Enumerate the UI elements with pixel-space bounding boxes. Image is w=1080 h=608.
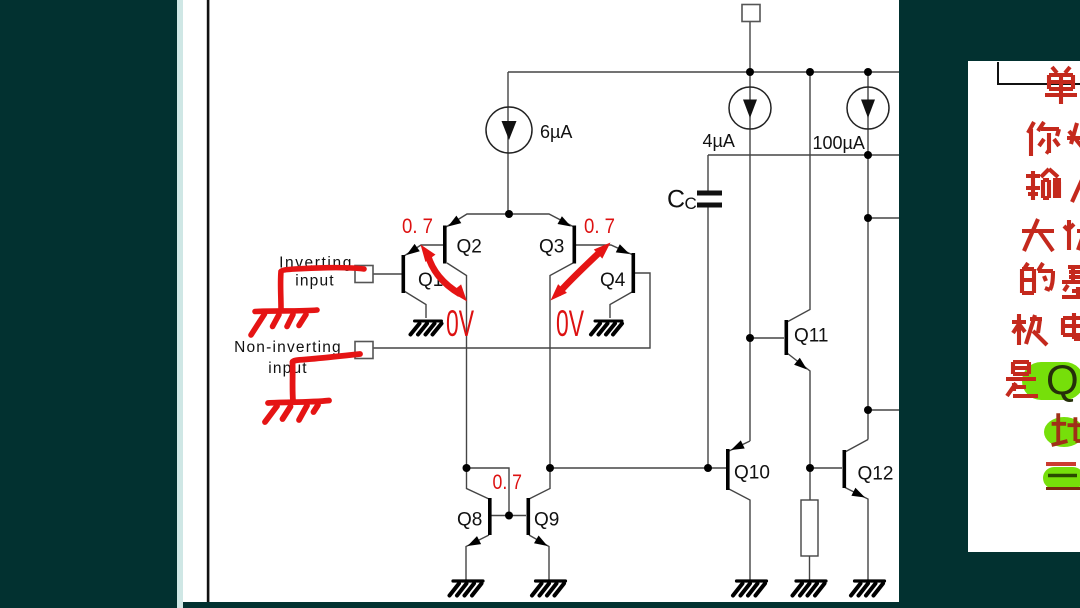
wire: Q11 base [750,337,784,339]
wire: Q1 collector to ground [404,291,426,318]
left frame rule [207,0,210,602]
junction Q11 emitter / Q12 base / resistor [806,464,814,472]
svg-text:C: C [667,186,685,214]
svg-text:Q2: Q2 [457,237,482,258]
hanzi di line8 (dark over green) [1052,412,1080,445]
wire: Cc branch vertical lower [707,207,709,469]
wire: Q12 emitter to ground [845,488,868,581]
wire: top terminal to rail [749,21,751,72]
transistor Q4 [600,244,635,293]
red scribble: inverting input ground [251,268,364,335]
ground (resistor) [793,581,827,596]
transistor Q9 [527,498,560,546]
hanzi da line4 [1022,219,1054,251]
wire: output stub y410 [868,409,899,411]
hanzi san bottom stroke dark [1046,487,1080,490]
wire: V+ rail [508,71,899,73]
svg-text:4µA: 4µA [703,131,735,151]
ground (Q9 emitter) [532,581,566,596]
wire: Q3 emitter arm [509,214,574,227]
ground (Q8 emitter) [450,581,484,596]
hanzi san middle stroke dark [1048,474,1077,478]
hanzi dian line6 [1063,313,1080,339]
wire: Q10 emitter diagonal [728,441,750,452]
ground (Q1 collector) [411,321,442,335]
pale edge between teal and slide [177,0,183,608]
hanzi zhuang line4 [1064,219,1080,250]
hanzi de line5 [1022,263,1053,293]
hanzi ru line3 [1072,171,1080,202]
green ellipse highlight line8 [1044,417,1080,447]
junction Q8 Q9 base tie [505,512,513,520]
junction Cc branch / Q10 base [704,464,712,472]
red scribble: non-inverting input ground [265,354,360,422]
wire: Q4 collector to ground [610,292,632,318]
note panel corner border [998,62,1080,84]
svg-text:0V: 0V [556,303,584,344]
junction V+ rail / 4uA branch [746,68,754,76]
wire: Cc node horizontal [708,154,899,156]
transistor Q1 [402,244,444,293]
wire: 4uA branch x750 [749,72,751,441]
junction output stub / Q12 collector [864,406,872,414]
wire: Q1 base from inverting input [373,273,402,275]
junction Q9 collector node [546,464,554,472]
svg-text:input: input [295,273,335,290]
svg-text:100µA: 100µA [813,133,865,153]
hanzi shu line3 [1026,169,1061,200]
transistor Q12 [843,450,894,498]
transistor Q3 [539,216,576,263]
svg-text:0. 7: 0. 7 [584,215,615,238]
wire: Q11 emitter down to resistor [787,353,810,500]
svg-text:Q4: Q4 [600,270,626,291]
wire: 100uA branch x868 [867,72,869,440]
svg-text:Q10: Q10 [734,463,770,484]
ground (Q10) [733,581,767,596]
junction Cc node / 100uA branch [864,151,872,159]
junction Q8 collector node [463,464,471,472]
terminal square non-inverting input [355,342,373,359]
junction V+ rail / 100uA branch [864,68,872,76]
wire: 6uA branch vertical [507,72,509,214]
svg-text:0. 7: 0. 7 [402,215,433,238]
junction stub y218 / 100uA branch [864,214,872,222]
svg-text:0. 7: 0. 7 [493,471,523,494]
current source 4uA [703,87,772,151]
wire: Q10 collector to ground [728,489,750,581]
wire: Q2 emitter arm [446,214,508,227]
svg-text:Q8: Q8 [457,510,482,531]
svg-text:Q: Q [1046,356,1079,403]
junction 6uA source / Q2 Q3 emitters [505,210,513,218]
wire: Q3 collector down to Q9 [529,263,573,499]
green highlight behind Q [1022,362,1080,400]
hanzi shi line7 [1006,362,1038,396]
wire: Q11 collector up to rail [787,72,810,322]
hanzi san line9 top stroke [1046,462,1076,466]
resistor R1 [801,500,818,556]
wire: base tie to Q8 collector node [467,468,510,516]
junction Q11 base / 4uA branch [746,334,754,342]
note panel (right) [968,61,1080,552]
red arrow Q1-Q2 (left) [421,245,468,302]
hanzi ni line2 [1028,122,1059,156]
svg-text:Q11: Q11 [794,326,829,347]
ground (Q4 collector) [591,321,622,335]
svg-text:Non-inverting: Non-inverting [234,339,342,356]
wire: resistor to ground [809,556,811,580]
wire: Cc branch vertical upper [707,155,709,191]
svg-text:C: C [685,194,697,213]
svg-text:Q12: Q12 [858,464,894,485]
capacitor Cc [667,186,722,214]
junction V+ rail / Q11 collector [806,68,814,76]
wire: Q8 emitter to ground [466,535,489,580]
wire: Q2 base to Q1 emitter [404,245,443,256]
transistor Q11 [785,320,829,370]
transistor Q10 [726,440,770,490]
wire: Q4 emitter to Q3 base [576,245,632,255]
transistor Q2 [443,216,482,264]
svg-text:6µA: 6µA [540,122,572,142]
current source 100uA [813,87,890,153]
wire: Q12 collector diagonal [845,440,868,453]
ground (Q12 emitter) [851,581,885,596]
hanzi hao line2 [1067,123,1080,152]
red arrow Q3-Q4 (right) [551,243,611,301]
hanzi dan line1 [1045,67,1077,104]
current source 6uA [486,107,572,153]
wire: stub right y218 [868,217,899,219]
svg-text:0V: 0V [446,303,474,344]
hanzi ji line5 [1062,267,1080,297]
svg-text:Q9: Q9 [534,510,559,531]
wire: Q9 emitter to ground [529,535,549,580]
green highlight bar line9 [1043,467,1080,489]
wire: Q9 collector node to Q10 base [550,467,726,469]
wire: Q2 collector down to Q8 [447,263,489,499]
wire: Q12 base [810,467,842,469]
schematic white area [183,0,899,602]
wire: Q8/Q9 base tie [491,515,526,517]
hanzi ji2 line6 [1012,314,1047,345]
transistor Q8 [457,498,492,546]
terminal square top [742,5,760,22]
wire: Q4 base loop to non-inverting input [373,273,650,348]
svg-text:Q3: Q3 [539,237,564,258]
terminal square inverting input [355,266,373,283]
